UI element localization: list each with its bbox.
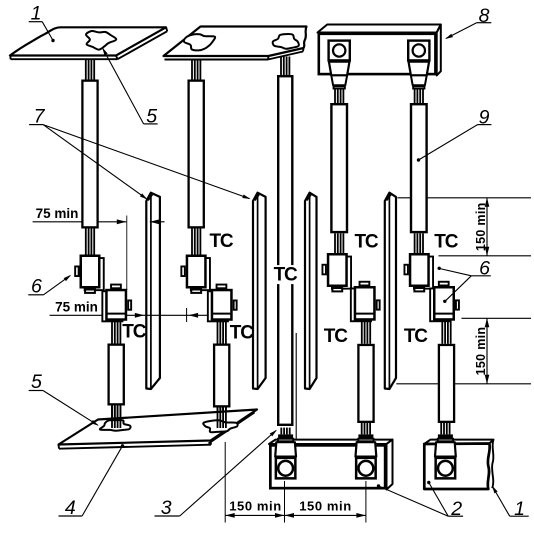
svg-text:TC: TC bbox=[210, 231, 234, 252]
svg-text:75 min: 75 min bbox=[36, 206, 79, 221]
svg-text:1: 1 bbox=[514, 498, 525, 520]
svg-text:8: 8 bbox=[479, 5, 490, 27]
svg-text:TC: TC bbox=[122, 321, 146, 342]
svg-text:5: 5 bbox=[31, 371, 42, 393]
svg-text:2: 2 bbox=[450, 498, 462, 520]
svg-text:150 min: 150 min bbox=[474, 327, 488, 376]
svg-text:150 min: 150 min bbox=[229, 499, 282, 514]
svg-text:TC: TC bbox=[324, 326, 348, 347]
svg-text:6: 6 bbox=[31, 275, 42, 297]
svg-text:TC: TC bbox=[434, 231, 458, 252]
svg-text:150 min: 150 min bbox=[474, 202, 488, 251]
svg-text:TC: TC bbox=[404, 326, 428, 347]
svg-text:TC: TC bbox=[230, 323, 254, 344]
svg-text:TC: TC bbox=[355, 231, 379, 252]
svg-text:75 min: 75 min bbox=[55, 299, 98, 314]
svg-text:150 min: 150 min bbox=[299, 499, 352, 514]
svg-text:TC: TC bbox=[274, 265, 298, 286]
